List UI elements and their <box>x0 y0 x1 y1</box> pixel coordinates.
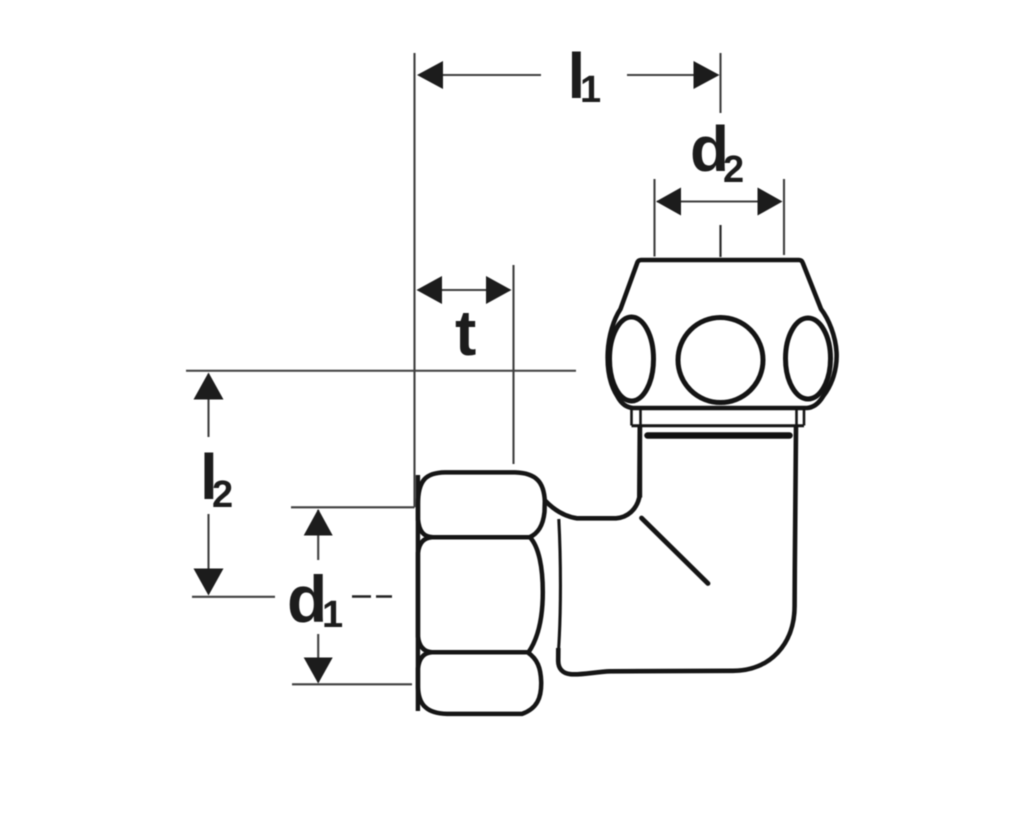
dimension l1 arrow right <box>694 61 720 89</box>
dimension t line <box>418 289 509 291</box>
svg-text:1: 1 <box>322 594 343 636</box>
cap nut outline <box>608 260 837 408</box>
body-nut interface line <box>558 519 560 652</box>
dimension l2 arrow up <box>194 373 224 400</box>
pipe left edge below ring <box>638 426 642 498</box>
dimension d2 arrow left <box>656 188 681 216</box>
svg-text:2: 2 <box>212 474 233 516</box>
center tick of pipe axis <box>719 225 721 257</box>
dimension d2 extension line left <box>653 179 655 257</box>
dimension l2 bottom extension line <box>192 596 275 598</box>
svg-text:2: 2 <box>723 149 744 191</box>
dimension d1 arrow down <box>304 658 333 684</box>
dark seam line at pipe top <box>648 432 790 439</box>
dimension l2 arrow down <box>194 569 224 596</box>
hex nut top facet <box>418 472 545 537</box>
dimension l1 extension line right <box>719 53 721 113</box>
hex nut middle facet <box>418 537 543 652</box>
dimension t arrow left <box>417 276 443 304</box>
dimension d1 arrow up <box>304 509 333 536</box>
svg-text:1: 1 <box>580 69 601 111</box>
cap nut middle hole <box>678 318 763 403</box>
dimension l1 line <box>441 74 696 76</box>
cap nut left side hole <box>610 317 654 401</box>
dimension l2 line <box>207 374 209 592</box>
ring washer under cap nut <box>632 409 805 426</box>
dimension t arrow right <box>486 276 512 304</box>
dimension d1 line <box>317 510 319 682</box>
dimension d2 line <box>657 200 781 202</box>
dimension d1 top extension line <box>291 506 415 508</box>
cap nut right side hole <box>786 318 831 399</box>
dimension t extension line right <box>512 265 514 464</box>
dimension d2 extension line right <box>783 179 785 255</box>
hex nut straight left edge <box>416 475 420 711</box>
chamfer line inside elbow <box>642 518 709 584</box>
elbow body outline <box>545 427 796 674</box>
dimension d1 bottom extension line <box>292 683 412 685</box>
centerline dashes right of d1 label <box>352 595 392 598</box>
hex nut bottom facet <box>418 652 541 714</box>
dimension l1 arrow left <box>417 61 443 89</box>
dimension d2 arrow right <box>758 188 783 216</box>
svg-text:t: t <box>455 297 476 369</box>
reference line for l2 top <box>186 370 576 372</box>
dimension l1 extension line left <box>413 53 415 507</box>
